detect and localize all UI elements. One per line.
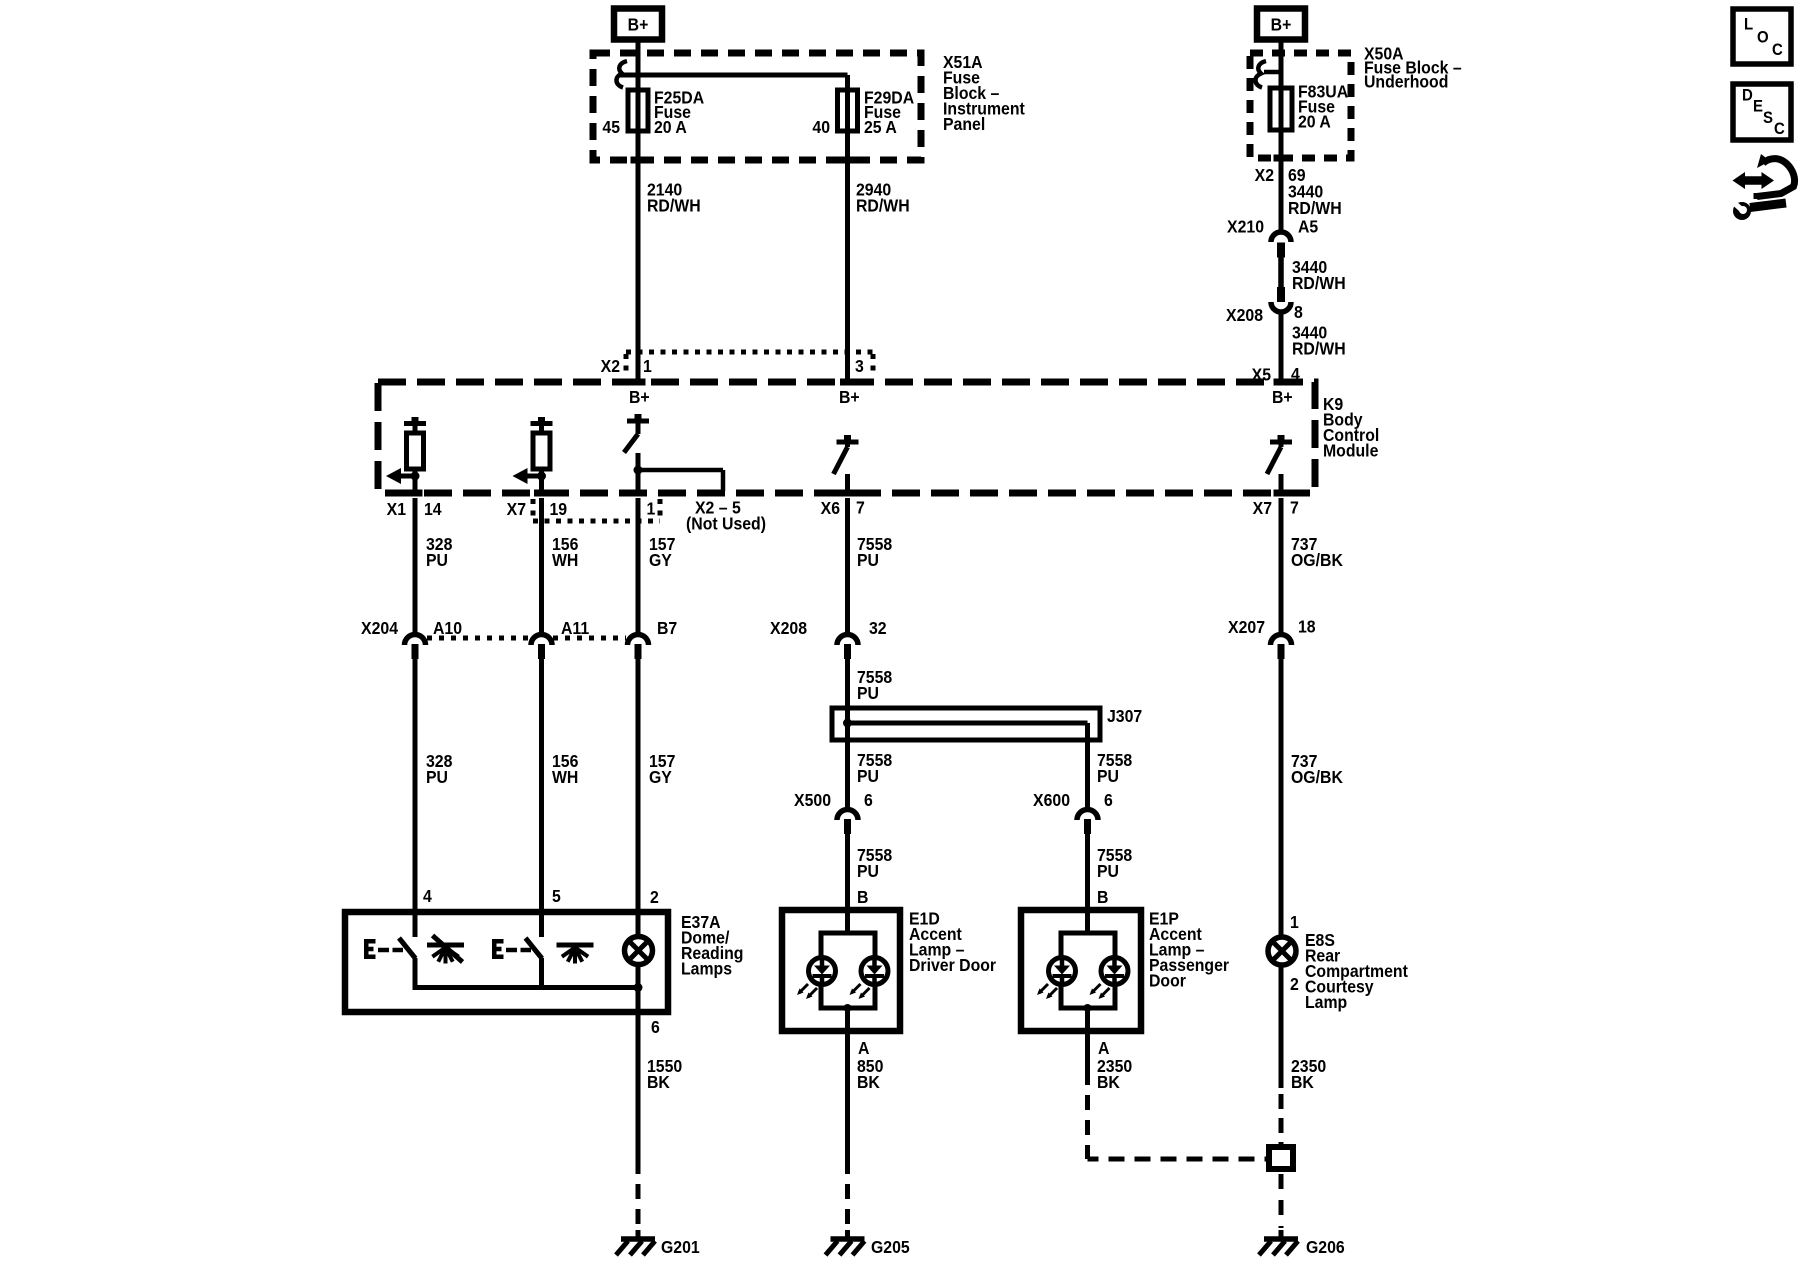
svg-text:BK: BK bbox=[1097, 1072, 1121, 1092]
E1P box bbox=[1021, 910, 1141, 1031]
wire 7558 PU to E1P bbox=[1085, 833, 1090, 933]
svg-text:A11: A11 bbox=[561, 618, 589, 638]
svg-text:X2: X2 bbox=[601, 356, 620, 376]
svg-text:A10: A10 bbox=[433, 618, 462, 638]
LOC legend box bbox=[1733, 9, 1791, 64]
E1D LED 2 bbox=[861, 958, 888, 985]
svg-text:PU: PU bbox=[857, 550, 879, 570]
svg-text:1: 1 bbox=[1290, 912, 1299, 932]
wire 328 PU lower bbox=[413, 659, 418, 912]
wire 156 WH lower bbox=[539, 659, 544, 912]
wire 2350 BK hidden elbow bbox=[1085, 1095, 1090, 1159]
svg-text:G206: G206 bbox=[1306, 1237, 1345, 1257]
E37A switch 1 actuator E bbox=[364, 939, 369, 959]
svg-text:7: 7 bbox=[1290, 498, 1299, 518]
svg-text:1: 1 bbox=[643, 356, 652, 376]
BCM pin 1 terminal bbox=[631, 379, 646, 386]
svg-text:G201: G201 bbox=[661, 1237, 700, 1257]
svg-text:RD/WH: RD/WH bbox=[856, 196, 910, 216]
svg-text:6: 6 bbox=[1104, 790, 1113, 810]
wire 2140 RD/WH bbox=[636, 163, 641, 382]
svg-text:BK: BK bbox=[857, 1072, 881, 1092]
E37A dome lamp bbox=[636, 912, 641, 939]
svg-text:BK: BK bbox=[1291, 1072, 1315, 1092]
svg-text:25 A: 25 A bbox=[864, 117, 897, 137]
BCM switch (X6-7 output) bbox=[844, 435, 851, 440]
svg-text:20 A: 20 A bbox=[654, 117, 687, 137]
E37A dimmer lamp symbol 1 bbox=[427, 943, 464, 948]
svg-text:1: 1 bbox=[647, 499, 656, 519]
svg-text:E: E bbox=[1753, 98, 1763, 116]
wire B+ to fuse block X51A bbox=[636, 42, 641, 163]
svg-text:B: B bbox=[1097, 887, 1108, 907]
svg-text:B+: B+ bbox=[1271, 15, 1292, 35]
svg-text:Module: Module bbox=[1323, 441, 1378, 461]
legend icon arrows and wrench bbox=[1744, 176, 1762, 185]
svg-text:PU: PU bbox=[1097, 861, 1119, 881]
E1P lamp housing bbox=[1085, 910, 1090, 933]
svg-text:X204: X204 bbox=[361, 618, 398, 638]
BCM driver output with resistor (X1-14) bbox=[412, 417, 419, 422]
svg-text:RD/WH: RD/WH bbox=[1288, 198, 1342, 218]
svg-text:19: 19 bbox=[550, 499, 568, 519]
wire 3440 RD/WH lower bbox=[1279, 313, 1284, 382]
svg-text:S: S bbox=[1763, 109, 1773, 127]
svg-text:RD/WH: RD/WH bbox=[1292, 273, 1346, 293]
svg-text:3: 3 bbox=[855, 356, 864, 376]
wire 850 BK bbox=[845, 1031, 850, 1174]
wire 328 PU upper bbox=[413, 498, 418, 633]
svg-text:X600: X600 bbox=[1033, 790, 1070, 810]
E37A lamp symbol 2 bbox=[557, 943, 594, 948]
wire between X210 and X208 bbox=[1278, 257, 1284, 287]
svg-text:(Not Used): (Not Used) bbox=[686, 514, 766, 534]
svg-text:Lamps: Lamps bbox=[681, 959, 732, 979]
battery feed B+ symbol (left) bbox=[614, 9, 662, 40]
connector X204 pin A11 bbox=[531, 635, 552, 646]
svg-text:X210: X210 bbox=[1227, 217, 1264, 237]
fuse F83UA bbox=[1270, 88, 1292, 130]
E1D lamp housing bbox=[845, 910, 850, 933]
svg-text:A5: A5 bbox=[1298, 217, 1318, 237]
wire 2350 BK (E1P) bbox=[1085, 1031, 1090, 1085]
svg-text:X1: X1 bbox=[387, 499, 406, 519]
wire 157 GY lower bbox=[636, 659, 641, 912]
wire 7558 PU to E1D bbox=[845, 833, 850, 933]
BCM switch (pin 1 output) bbox=[635, 414, 642, 419]
connector X208 pin 8 bbox=[1277, 287, 1285, 302]
dotted link A11-B7 bbox=[553, 636, 626, 641]
svg-text:D: D bbox=[1742, 87, 1753, 105]
svg-text:6: 6 bbox=[864, 790, 873, 810]
fuse block X51A dashed box bbox=[593, 53, 921, 160]
svg-text:B: B bbox=[857, 887, 868, 907]
wire 7558 PU upper bbox=[845, 498, 850, 633]
E1D LED 1 bbox=[809, 958, 836, 985]
svg-text:14: 14 bbox=[424, 499, 442, 519]
E37A switch 2 bbox=[539, 912, 544, 937]
svg-text:32: 32 bbox=[869, 618, 887, 638]
svg-text:X500: X500 bbox=[794, 790, 831, 810]
svg-text:WH: WH bbox=[552, 767, 578, 787]
wire hidden to ground G206 bbox=[1279, 1174, 1284, 1228]
wire 156 WH upper bbox=[539, 498, 544, 633]
svg-text:7: 7 bbox=[856, 498, 865, 518]
svg-text:RD/WH: RD/WH bbox=[647, 196, 701, 216]
svg-text:BK: BK bbox=[647, 1072, 671, 1092]
svg-text:J307: J307 bbox=[1107, 706, 1142, 726]
svg-text:X7: X7 bbox=[507, 499, 526, 519]
svg-text:X6: X6 bbox=[821, 498, 840, 518]
svg-text:20 A: 20 A bbox=[1298, 112, 1331, 132]
svg-text:RD/WH: RD/WH bbox=[1292, 339, 1346, 359]
wire 737 OG/BK upper bbox=[1279, 498, 1284, 633]
svg-text:B+: B+ bbox=[1272, 387, 1293, 407]
svg-text:B7: B7 bbox=[657, 618, 677, 638]
connector X204 pin A10 bbox=[405, 635, 426, 646]
svg-text:X208: X208 bbox=[770, 618, 807, 638]
svg-text:B+: B+ bbox=[629, 387, 650, 407]
svg-text:Door: Door bbox=[1149, 971, 1186, 991]
svg-text:B+: B+ bbox=[628, 15, 649, 35]
dotted bracket X7-19 to 1 bbox=[531, 499, 536, 521]
dotted link A10-A11 bbox=[427, 636, 530, 641]
X50A bus hook bbox=[1255, 61, 1266, 88]
E1P LED 2 bbox=[1101, 958, 1128, 985]
svg-text:5: 5 bbox=[552, 886, 561, 906]
E37A switch 1 bbox=[413, 912, 418, 937]
svg-text:OG/BK: OG/BK bbox=[1291, 767, 1344, 787]
svg-text:C: C bbox=[1774, 120, 1785, 138]
svg-text:8: 8 bbox=[1294, 302, 1303, 322]
E1D housing junction bbox=[844, 1004, 852, 1012]
battery feed B+ symbol (right) bbox=[1257, 9, 1305, 40]
ground G205 bbox=[845, 1230, 850, 1240]
svg-text:45: 45 bbox=[602, 117, 620, 137]
ground G201 bbox=[636, 1230, 641, 1240]
wire B+ to fuse block X50A bbox=[1279, 42, 1284, 161]
svg-text:40: 40 bbox=[812, 117, 830, 137]
wire 7558 PU to splice bbox=[845, 659, 850, 808]
svg-text:X208: X208 bbox=[1226, 305, 1263, 325]
E1D box bbox=[782, 910, 900, 1031]
E1P LED 1 bbox=[1049, 958, 1076, 985]
svg-text:4: 4 bbox=[423, 886, 432, 906]
svg-text:X7: X7 bbox=[1253, 498, 1272, 518]
ground G201 wire bbox=[636, 1012, 641, 1174]
X51A internal bus bar bbox=[620, 73, 848, 78]
svg-text:2: 2 bbox=[650, 887, 659, 907]
wire 3440 RD/WH upper bbox=[1279, 161, 1284, 231]
E37A switch 2 actuator E bbox=[492, 939, 497, 959]
svg-text:Panel: Panel bbox=[943, 114, 985, 134]
X51A pin 45 terminal bbox=[631, 157, 646, 164]
svg-text:B+: B+ bbox=[839, 387, 860, 407]
svg-text:G205: G205 bbox=[871, 1237, 910, 1257]
fuse F25DA bbox=[628, 90, 648, 131]
connector X204 pin B7 bbox=[628, 635, 649, 646]
BCM driver output with resistor (X7-19) bbox=[538, 417, 545, 422]
BCM switch (X7-7 output) bbox=[1278, 435, 1285, 440]
X51A bus hook bbox=[616, 61, 627, 88]
DESC legend box bbox=[1733, 84, 1791, 140]
svg-text:L: L bbox=[1744, 16, 1753, 34]
wire 2350 BK (E8S) bbox=[1279, 963, 1284, 1089]
svg-text:GY: GY bbox=[649, 550, 673, 570]
svg-text:PU: PU bbox=[426, 767, 448, 787]
fuse block X50A dashed box bbox=[1250, 53, 1351, 158]
wire 737 OG/BK lower bbox=[1279, 659, 1284, 940]
svg-text:O: O bbox=[1757, 29, 1769, 47]
BCM pin 4 terminal bbox=[1274, 379, 1289, 386]
BCM pin 3 terminal bbox=[840, 379, 855, 386]
X51A pin 40 terminal bbox=[840, 157, 855, 164]
wire 157 GY upper bbox=[636, 498, 641, 633]
X50A pin terminal bbox=[1274, 155, 1289, 162]
fuse F29DA bbox=[838, 90, 858, 131]
svg-text:Lamp: Lamp bbox=[1305, 992, 1347, 1012]
wire 850 BK hidden segment bbox=[845, 1184, 850, 1228]
svg-text:OG/BK: OG/BK bbox=[1291, 550, 1344, 570]
svg-text:C: C bbox=[1772, 41, 1783, 59]
svg-text:6: 6 bbox=[651, 1017, 660, 1037]
inline connector square bbox=[1269, 1147, 1293, 1169]
BCM bottom pin terminals bbox=[408, 490, 423, 497]
BCM K9 dashed box bbox=[378, 382, 1315, 493]
wire 2940 RD/WH bbox=[845, 163, 850, 382]
svg-text:PU: PU bbox=[857, 861, 879, 881]
svg-text:PU: PU bbox=[857, 683, 879, 703]
svg-text:GY: GY bbox=[649, 767, 673, 787]
E8S lamp bbox=[1268, 937, 1296, 965]
E1P housing junction bbox=[1084, 1004, 1092, 1012]
wire 7558 PU right branch bbox=[1085, 723, 1090, 808]
svg-text:X207: X207 bbox=[1228, 617, 1265, 637]
svg-text:PU: PU bbox=[1097, 766, 1119, 786]
svg-text:Driver Door: Driver Door bbox=[909, 955, 996, 975]
svg-text:X2: X2 bbox=[1255, 165, 1274, 185]
svg-text:PU: PU bbox=[857, 766, 879, 786]
svg-text:WH: WH bbox=[552, 550, 578, 570]
ground G206 bbox=[1279, 1230, 1284, 1240]
BCM X2-5 not used stub bbox=[638, 468, 723, 473]
E37A internal bus bbox=[415, 985, 638, 990]
E37A box bbox=[345, 912, 668, 1012]
svg-text:18: 18 bbox=[1298, 617, 1316, 637]
svg-text:Underhood: Underhood bbox=[1364, 72, 1448, 92]
dotted connector X2 bracket bbox=[626, 350, 873, 355]
wire 2350 BK hidden upper bbox=[1279, 1094, 1284, 1145]
wire branch to F29DA bbox=[845, 75, 850, 163]
splice J307 bbox=[832, 708, 1100, 740]
svg-text:PU: PU bbox=[426, 550, 448, 570]
svg-text:2: 2 bbox=[1290, 974, 1299, 994]
